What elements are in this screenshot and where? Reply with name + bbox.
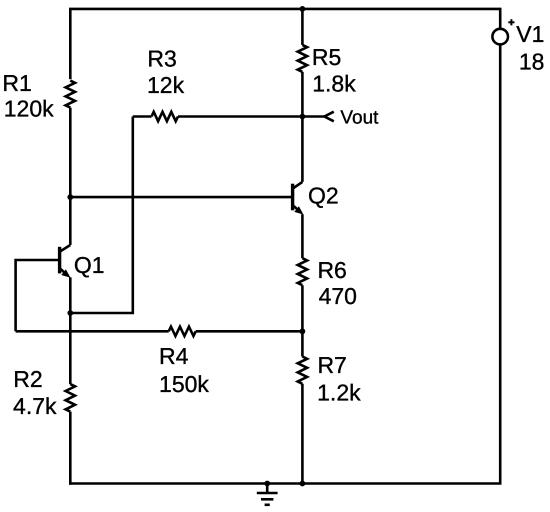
svg-text:1.8k: 1.8k bbox=[312, 70, 356, 96]
svg-text:R5: R5 bbox=[312, 44, 341, 70]
svg-text:470: 470 bbox=[319, 283, 357, 309]
svg-text:Q1: Q1 bbox=[74, 252, 105, 278]
svg-text:R7: R7 bbox=[317, 352, 346, 378]
svg-text:18: 18 bbox=[519, 49, 545, 75]
svg-text:1.2k: 1.2k bbox=[317, 380, 361, 406]
svg-text:V1: V1 bbox=[516, 21, 544, 47]
svg-text:R4: R4 bbox=[159, 343, 189, 369]
svg-text:Q2: Q2 bbox=[308, 183, 339, 209]
svg-text:150k: 150k bbox=[159, 371, 209, 397]
svg-text:R6: R6 bbox=[317, 257, 346, 283]
svg-text:R3: R3 bbox=[147, 46, 176, 72]
svg-text:R1: R1 bbox=[2, 70, 31, 96]
svg-text:R2: R2 bbox=[13, 366, 42, 392]
svg-text:12k: 12k bbox=[147, 72, 185, 98]
svg-text:Vout: Vout bbox=[340, 108, 379, 129]
svg-text:120k: 120k bbox=[4, 96, 54, 122]
svg-text:4.7k: 4.7k bbox=[13, 393, 57, 419]
